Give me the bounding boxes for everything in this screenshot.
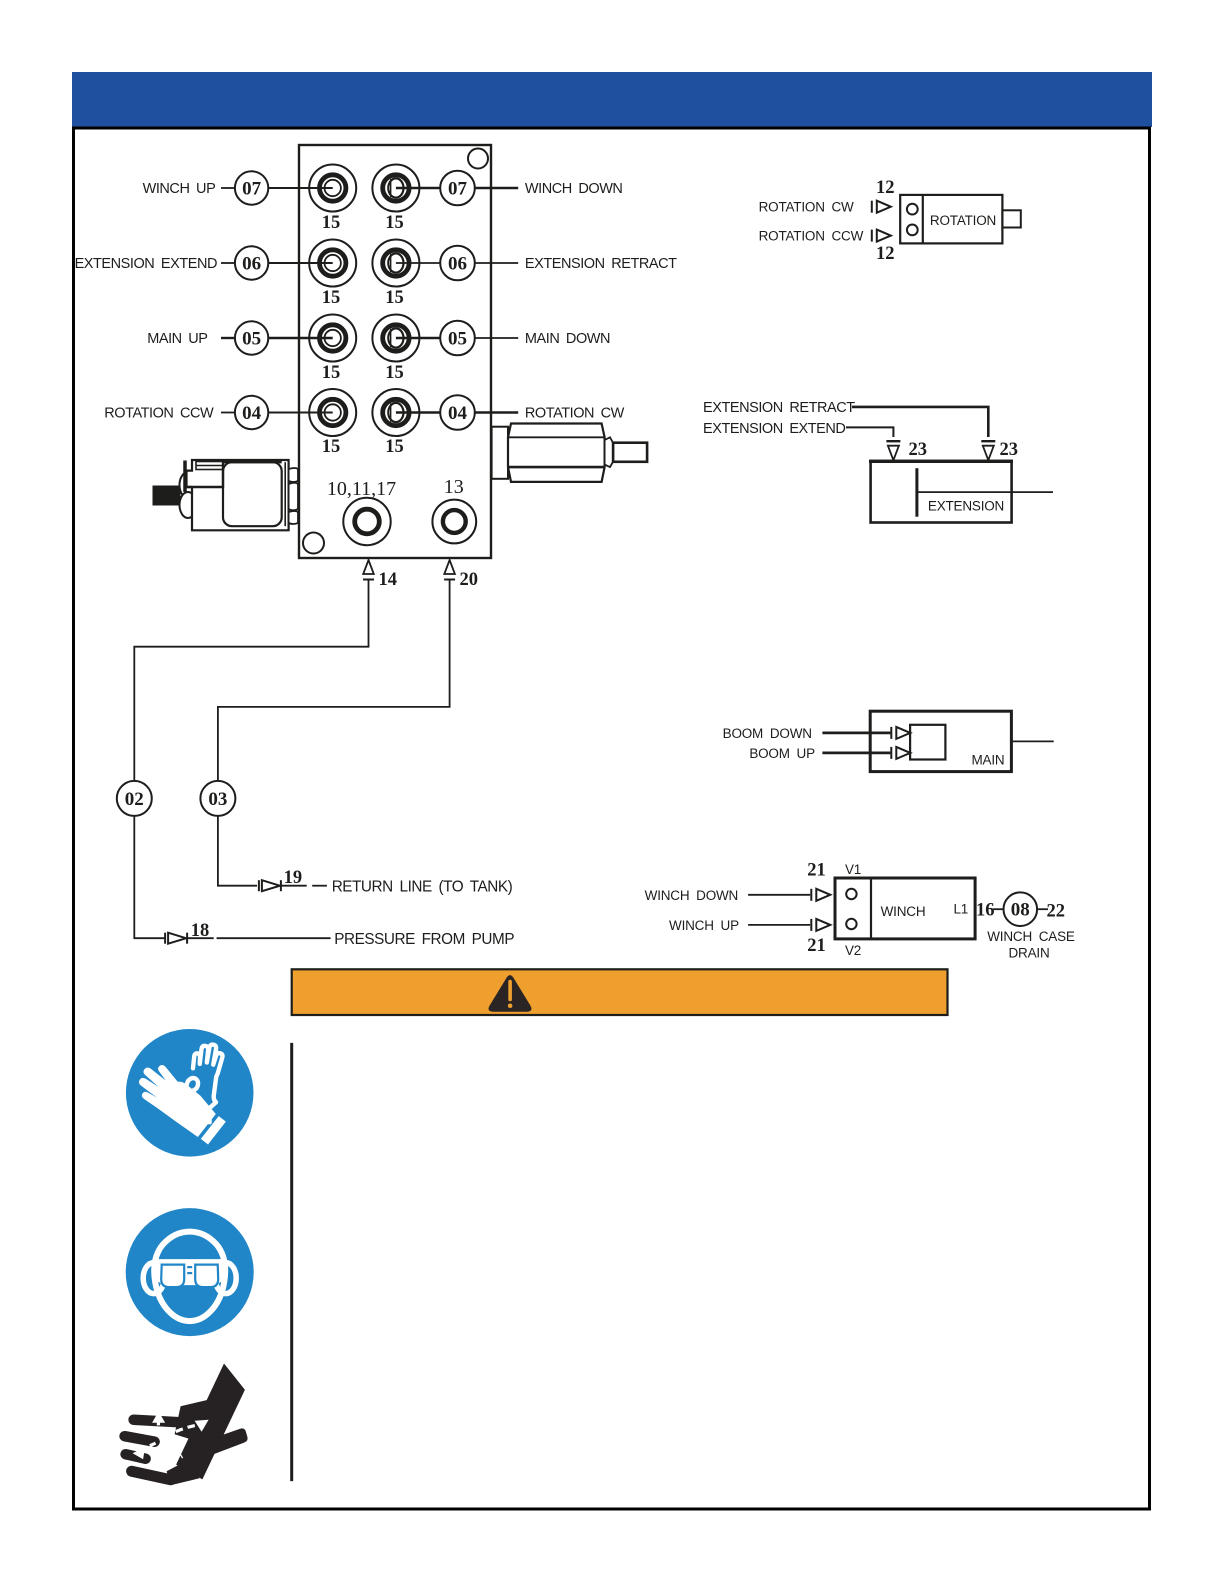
svg-text:EXTENSION RETRACT: EXTENSION RETRACT <box>525 256 677 272</box>
svg-text:DRAIN: DRAIN <box>1008 946 1049 961</box>
svg-text:ROTATION CCW: ROTATION CCW <box>104 406 214 422</box>
svg-text:15: 15 <box>385 213 404 233</box>
svg-text:15: 15 <box>385 437 404 457</box>
svg-text:V1: V1 <box>845 862 861 877</box>
svg-text:BOOM UP: BOOM UP <box>749 746 815 761</box>
svg-text:BOOM DOWN: BOOM DOWN <box>723 726 812 741</box>
svg-text:PRESSURE FROM PUMP: PRESSURE FROM PUMP <box>334 931 514 948</box>
svg-text:EXTENSION RETRACT: EXTENSION RETRACT <box>703 400 855 416</box>
svg-text:15: 15 <box>322 288 341 308</box>
svg-text:15: 15 <box>322 363 341 383</box>
svg-text:13: 13 <box>444 476 464 498</box>
svg-text:19: 19 <box>284 868 303 888</box>
svg-text:07: 07 <box>448 179 468 200</box>
svg-text:04: 04 <box>448 403 468 424</box>
svg-text:12: 12 <box>876 244 895 264</box>
svg-text:05: 05 <box>242 329 261 350</box>
svg-text:EXTENSION EXTEND: EXTENSION EXTEND <box>703 421 845 437</box>
svg-text:WINCH CASE: WINCH CASE <box>987 929 1075 944</box>
svg-text:08: 08 <box>1011 900 1030 921</box>
svg-text:15: 15 <box>322 437 341 457</box>
svg-text:14: 14 <box>379 570 398 590</box>
svg-text:EXTENSION EXTEND: EXTENSION EXTEND <box>75 256 217 272</box>
svg-text:15: 15 <box>385 363 404 383</box>
svg-text:21: 21 <box>807 936 826 956</box>
svg-text:WINCH DOWN: WINCH DOWN <box>525 181 623 197</box>
svg-text:20: 20 <box>460 570 479 590</box>
svg-text:10,11,17: 10,11,17 <box>327 478 396 500</box>
svg-text:21: 21 <box>807 861 826 881</box>
svg-text:12: 12 <box>876 178 895 198</box>
svg-text:L1: L1 <box>953 901 968 916</box>
svg-text:04: 04 <box>242 403 262 424</box>
svg-text:MAIN: MAIN <box>972 753 1005 768</box>
svg-text:MAIN UP: MAIN UP <box>147 331 207 347</box>
svg-text:23: 23 <box>1000 440 1019 460</box>
svg-text:ROTATION CW: ROTATION CW <box>525 406 625 422</box>
svg-text:15: 15 <box>322 213 341 233</box>
svg-text:WINCH: WINCH <box>881 904 926 919</box>
svg-text:RETURN LINE (TO TANK): RETURN LINE (TO TANK) <box>332 878 513 895</box>
svg-text:23: 23 <box>909 440 928 460</box>
svg-text:WINCH UP: WINCH UP <box>669 918 739 933</box>
svg-text:05: 05 <box>448 329 467 350</box>
svg-text:EXTENSION: EXTENSION <box>928 498 1004 513</box>
svg-text:06: 06 <box>448 254 467 275</box>
svg-text:03: 03 <box>208 789 227 810</box>
svg-text:18: 18 <box>191 921 210 941</box>
svg-text:MAIN DOWN: MAIN DOWN <box>525 331 610 347</box>
svg-text:WINCH DOWN: WINCH DOWN <box>645 888 738 903</box>
svg-text:15: 15 <box>385 288 404 308</box>
svg-text:ROTATION: ROTATION <box>930 213 996 228</box>
svg-text:ROTATION CW: ROTATION CW <box>759 200 854 215</box>
svg-text:22: 22 <box>1046 902 1065 922</box>
svg-text:ROTATION CCW: ROTATION CCW <box>759 229 864 244</box>
svg-text:06: 06 <box>242 254 261 275</box>
svg-text:16: 16 <box>976 901 995 921</box>
svg-text:02: 02 <box>125 789 144 810</box>
svg-text:V2: V2 <box>845 943 861 958</box>
svg-text:07: 07 <box>242 179 262 200</box>
svg-text:WINCH UP: WINCH UP <box>143 181 216 197</box>
